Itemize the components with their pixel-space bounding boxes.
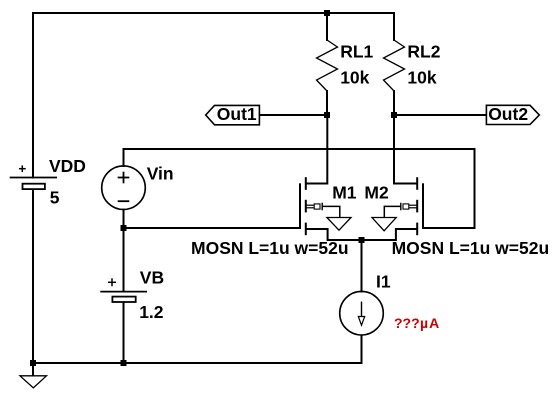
svg-text:MOSN L=1u w=52u: MOSN L=1u w=52u bbox=[191, 238, 349, 258]
wire Vin bottom bbox=[123, 210, 125, 229]
wire top rail bbox=[33, 12, 394, 14]
wire ground stem bbox=[32, 363, 34, 376]
port Out2 bbox=[486, 104, 539, 125]
wire RL1 bottom bbox=[326, 91, 328, 115]
wire M1 gate bbox=[124, 227, 301, 229]
junction node Out2 / RL2 / M2 drain bbox=[391, 112, 397, 118]
junction node ground rail left bbox=[30, 360, 36, 366]
wire VB bottom bbox=[123, 303, 125, 364]
svg-text:RL1: RL1 bbox=[340, 42, 373, 62]
resistor RL2 bbox=[384, 40, 405, 91]
wire bottom rail bbox=[33, 362, 362, 364]
wire Out2 bbox=[394, 114, 486, 116]
wire VB top bbox=[123, 228, 125, 291]
junction node Out1 / RL1 / M1 drain bbox=[324, 112, 330, 118]
svg-text:MOSN L=1u w=52u: MOSN L=1u w=52u bbox=[392, 238, 550, 258]
voltage source VB (battery) bbox=[100, 278, 147, 302]
wire Vin top to M2 gate bbox=[124, 149, 475, 228]
resistor RL1 bbox=[317, 40, 338, 91]
transistor M1 (NMOS) bbox=[300, 177, 351, 235]
port Out1 bbox=[206, 104, 260, 125]
wire RL2 top bbox=[393, 13, 395, 40]
wire left rail upper bbox=[32, 13, 34, 178]
wire left rail lower bbox=[32, 189, 34, 363]
svg-text:VB: VB bbox=[140, 268, 164, 288]
voltage source VDD (battery) bbox=[10, 165, 57, 189]
wire I1 top bbox=[361, 240, 363, 292]
current source I1 bbox=[340, 291, 384, 335]
svg-text:VDD: VDD bbox=[49, 156, 86, 176]
ground bbox=[20, 376, 47, 388]
voltage source Vin (circle) bbox=[102, 166, 146, 210]
svg-text:5: 5 bbox=[50, 188, 60, 208]
junction node Vin- / gate / VB bbox=[121, 225, 127, 231]
wire RL2 drain riser bbox=[393, 115, 395, 184]
svg-text:µA: µA bbox=[420, 315, 440, 331]
svg-text:Out2: Out2 bbox=[488, 104, 528, 124]
svg-text:???: ??? bbox=[394, 315, 420, 331]
junction node top rail / RL1 bbox=[324, 10, 330, 16]
svg-text:10k: 10k bbox=[407, 68, 436, 88]
svg-text:Vin: Vin bbox=[147, 164, 174, 184]
wire RL2 bottom bbox=[393, 91, 395, 115]
wire RL1 top bbox=[326, 13, 328, 40]
svg-text:I1: I1 bbox=[376, 272, 391, 292]
wire source bus bbox=[328, 229, 396, 240]
svg-text:M2: M2 bbox=[364, 183, 389, 203]
svg-text:M1: M1 bbox=[332, 183, 357, 203]
wire I1 bottom bbox=[361, 336, 363, 363]
transistor M2 (NMOS, mirrored) bbox=[372, 177, 423, 235]
wire Out1 bbox=[259, 114, 327, 116]
svg-text:1.2: 1.2 bbox=[139, 302, 164, 322]
svg-text:Out1: Out1 bbox=[217, 104, 257, 124]
svg-text:RL2: RL2 bbox=[407, 42, 440, 62]
junction node VB / bottom rail bbox=[121, 360, 127, 366]
svg-text:10k: 10k bbox=[340, 68, 369, 88]
wire RL1 drain riser bbox=[326, 115, 328, 184]
junction node sources / I1 bbox=[359, 237, 365, 243]
